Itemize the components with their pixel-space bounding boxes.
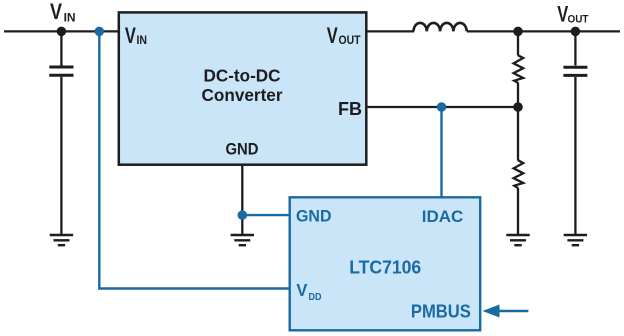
pin VIN of converter xyxy=(125,23,147,48)
svg-text:GND: GND xyxy=(226,141,259,159)
pin VDD of LTC7106 xyxy=(296,280,321,303)
ground: divider ground xyxy=(506,235,529,245)
svg-text:GND: GND xyxy=(296,207,332,225)
capacitor COUT xyxy=(563,31,587,234)
LTC7106 block xyxy=(290,197,481,330)
wire: blue IDAC wire from FB line to LTC7106 xyxy=(440,107,442,197)
inductor L1 xyxy=(414,23,467,32)
node: VOUT divider junction xyxy=(513,27,523,37)
wire: PMBUS arrow xyxy=(482,305,528,318)
node: FB divider junction xyxy=(513,102,523,112)
node VOUT label xyxy=(557,2,589,27)
converter title xyxy=(202,66,283,105)
svg-text:IN: IN xyxy=(137,33,148,47)
node: VIN rail junction (black dot) xyxy=(57,27,67,37)
pin VOUT of converter xyxy=(327,23,361,48)
wire: converter GND down to ground xyxy=(241,164,243,234)
node: VOUT output junction xyxy=(571,27,581,37)
ground: input capacitor ground xyxy=(50,235,73,245)
wire: FB line from converter to divider xyxy=(366,106,518,108)
svg-text:V: V xyxy=(296,280,307,300)
svg-text:V: V xyxy=(327,23,338,48)
svg-text:IDAC: IDAC xyxy=(422,207,464,226)
ground: output capacitor ground xyxy=(564,235,587,245)
node: GND blue junction xyxy=(238,210,248,220)
resistor R1 (upper divider) xyxy=(514,31,524,107)
capacitor CIN xyxy=(49,31,73,234)
svg-text:FB: FB xyxy=(338,99,362,119)
wire: VOUT from converter to inductor xyxy=(366,30,414,32)
wire: blue VDD wire from VIN rail to LTC7106 VDD pin xyxy=(99,31,289,288)
DC-to-DC converter block xyxy=(119,12,366,164)
wire: inductor to VOUT node xyxy=(467,30,620,32)
ground: converter ground xyxy=(231,235,254,245)
wire: VIN input rail xyxy=(4,30,118,32)
node VIN label xyxy=(50,0,76,25)
svg-text:OUT: OUT xyxy=(568,14,589,26)
svg-text:V: V xyxy=(125,23,136,48)
svg-text:PMBUS: PMBUS xyxy=(411,302,471,322)
svg-text:OUT: OUT xyxy=(339,33,362,47)
wire: blue GND wire to LTC7106 xyxy=(242,214,289,216)
svg-text:DC-to-DC: DC-to-DC xyxy=(204,66,281,86)
resistor R2 (lower divider) xyxy=(514,107,524,234)
node: VIN blue junction to LTC7106 xyxy=(95,27,105,37)
node: FB blue junction xyxy=(437,102,447,112)
svg-text:IN: IN xyxy=(64,11,76,25)
svg-text:DD: DD xyxy=(309,292,322,303)
svg-text:LTC7106: LTC7106 xyxy=(349,258,421,278)
svg-text:Converter: Converter xyxy=(202,85,283,105)
svg-text:V: V xyxy=(50,0,62,24)
